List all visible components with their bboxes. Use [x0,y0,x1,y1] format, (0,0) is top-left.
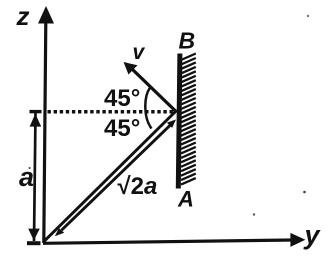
svg-text:A: A [177,187,194,212]
svg-text:y: y [303,220,322,250]
svg-text:45°: 45° [104,85,140,112]
svg-text:a: a [19,162,34,192]
svg-text:45°: 45° [104,115,140,142]
svg-text:z: z [16,1,30,31]
svg-text:√2a: √2a [118,173,158,200]
svg-text:B: B [179,28,196,54]
svg-text:v: v [133,41,146,64]
